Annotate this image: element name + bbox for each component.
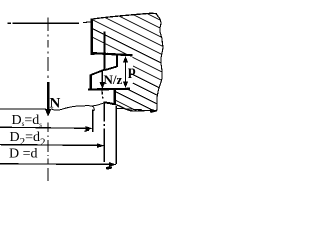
dimension line 1 left part	[0, 108, 46, 110]
vertical centerline (axis), upper part	[47, 18, 49, 79]
dimension line 3	[0, 144, 99, 147]
profile: lower left vertical	[89, 74, 91, 89]
pitch dimension arrow p	[125, 58, 127, 86]
vertical centerline (axis), lower part	[47, 123, 49, 182]
extension line at x=116.4	[115, 106, 117, 164]
extension line at x=92.8	[92, 110, 94, 132]
profile: small diagonal	[104, 67, 117, 71]
dimension arrow 1	[150, 108, 158, 113]
profile: vertical below bottom land	[114, 89, 116, 105]
arrow 4 slip mark	[106, 167, 112, 170]
svg-text:N/z: N/z	[104, 72, 123, 87]
section bottom edge: thick left part	[104, 102, 114, 104]
thin break-line outline of section: top edge	[92, 13, 158, 19]
section bottom edge: thin wavy part	[115, 104, 157, 111]
force arrow N/z on tooth	[101, 71, 103, 83]
dimension line 2	[0, 127, 86, 128]
profile: right flank vertical	[103, 32, 105, 71]
svg-text:D =d: D =d	[9, 147, 38, 162]
dimension arrow 4	[109, 162, 117, 167]
dimension line 1 straight overlap segment	[116, 108, 142, 110]
break line wavy	[51, 106, 94, 111]
profile: left flank vertical (upper tooth)	[90, 18, 92, 55]
dimension arrow 3	[97, 143, 105, 148]
svg-text:Ds=ds: Ds=ds	[12, 113, 43, 129]
dimension arrow 2	[85, 126, 92, 131]
horizontal centerline	[8, 22, 12, 24]
profile: tooth flank diagonal	[91, 70, 105, 75]
force arrow N (bold, downward along axis)	[47, 82, 50, 110]
profile: short vertical at x=117	[116, 54, 118, 67]
dimension line 4	[0, 163, 111, 166]
break line connector	[91, 103, 105, 106]
tooth axis dash-dot line	[102, 90, 104, 163]
white tooth-space area over hatching	[90, 55, 134, 89]
profile: top land horizontal	[91, 53, 133, 55]
svg-text:p: p	[128, 64, 136, 79]
profile: bottom land horizontal	[88, 88, 130, 91]
thin break-line outline of section: right wavy edge	[157, 16, 163, 110]
hatching of section	[91, 0, 166, 126]
arrow 2 slip mark	[85, 129, 90, 132]
